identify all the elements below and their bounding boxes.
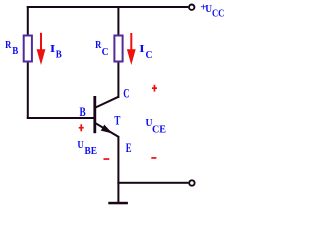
- resistor RC: [114, 36, 122, 62]
- label IC: [139, 43, 152, 61]
- ground: [108, 202, 128, 205]
- wire left vertical upper: [27, 6, 29, 35]
- svg-text:B: B: [12, 46, 18, 57]
- label RB: [5, 39, 18, 57]
- svg-text:I: I: [139, 43, 145, 55]
- svg-text:T: T: [114, 113, 120, 128]
- transistor T emitter diagonal: [96, 123, 119, 137]
- svg-text:E: E: [126, 141, 132, 155]
- label IB: [50, 43, 62, 61]
- wire collector vertical: [117, 62, 119, 98]
- svg-text:B: B: [80, 104, 86, 119]
- label UBE: [77, 139, 97, 157]
- terminal circle bottom: [189, 180, 194, 185]
- svg-text:CC: CC: [212, 8, 224, 19]
- minus sign at emitter right: [151, 157, 156, 159]
- svg-text:B: B: [56, 50, 62, 61]
- wire top rail: [27, 6, 188, 8]
- wire left vertical lower: [27, 62, 29, 119]
- current arrow IB: [37, 33, 46, 65]
- resistor RB: [24, 36, 32, 62]
- transistor T emitter arrowhead: [101, 125, 113, 134]
- wire Rc top vertical: [117, 6, 119, 35]
- plus sign at base: [79, 124, 84, 131]
- svg-text:C: C: [123, 85, 129, 100]
- svg-text:C: C: [146, 50, 153, 61]
- wire bottom branch to terminal: [117, 182, 188, 184]
- svg-text:C: C: [102, 47, 109, 58]
- svg-text:CE: CE: [152, 124, 166, 135]
- svg-text:U: U: [77, 139, 84, 151]
- label UCE: [146, 117, 167, 135]
- transistor T base bar: [93, 96, 96, 133]
- plus sign at collector: [152, 85, 157, 92]
- label RC: [95, 39, 109, 58]
- wire base horizontal: [27, 117, 95, 119]
- svg-text:BE: BE: [85, 146, 97, 157]
- minus sign at emitter left: [104, 158, 110, 160]
- svg-text:R: R: [5, 39, 12, 51]
- wire emitter vertical: [117, 136, 119, 203]
- current arrow IC: [127, 33, 136, 65]
- label +UCC: [200, 2, 224, 20]
- svg-text:I: I: [50, 43, 56, 55]
- terminal circle top: [189, 5, 194, 10]
- transistor T collector diagonal: [96, 97, 119, 108]
